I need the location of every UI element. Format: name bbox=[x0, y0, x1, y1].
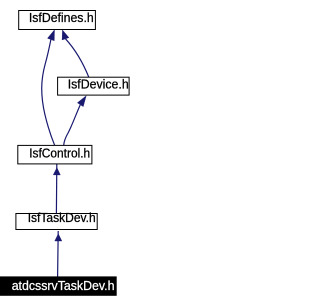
svg-text:atdcssrvTaskDev.h: atdcssrvTaskDev.h bbox=[12, 279, 115, 293]
node IsfTaskDev.h bbox=[16, 214, 97, 230]
svg-text:IsfTaskDev.h: IsfTaskDev.h bbox=[28, 211, 96, 225]
arrowhead IsfDevice to IsfDefines bbox=[62, 30, 69, 40]
wire IsfControl.h to IsfDevice.h bbox=[64, 105, 81, 146]
arrowhead IsfControl to IsfDefines bbox=[48, 30, 55, 41]
wire IsfTaskDev.h to IsfControl.h bbox=[55, 164, 57, 214]
arrowhead IsfTaskDev to IsfControl bbox=[53, 168, 60, 175]
arrowhead atdcssrvTaskDev to IsfTaskDev bbox=[55, 234, 62, 241]
svg-text:IsfDevice.h: IsfDevice.h bbox=[68, 78, 129, 92]
wire IsfControl.h to IsfDefines.h bbox=[42, 40, 55, 146]
node IsfDevice.h bbox=[58, 77, 130, 95]
node IsfDefines.h bbox=[19, 11, 96, 30]
node IsfControl.h bbox=[18, 145, 92, 164]
wire atdcssrvTaskDev.h to IsfTaskDev.h bbox=[57, 231, 60, 277]
svg-text:IsfDefines.h: IsfDefines.h bbox=[29, 11, 94, 25]
wire IsfDevice.h to IsfDefines.h bbox=[66, 39, 89, 77]
arrowhead IsfControl to IsfDevice bbox=[77, 96, 86, 107]
svg-text:IsfControl.h: IsfControl.h bbox=[29, 147, 90, 161]
node atdcssrvTaskDev.h (current file, black) bbox=[0, 277, 116, 295]
